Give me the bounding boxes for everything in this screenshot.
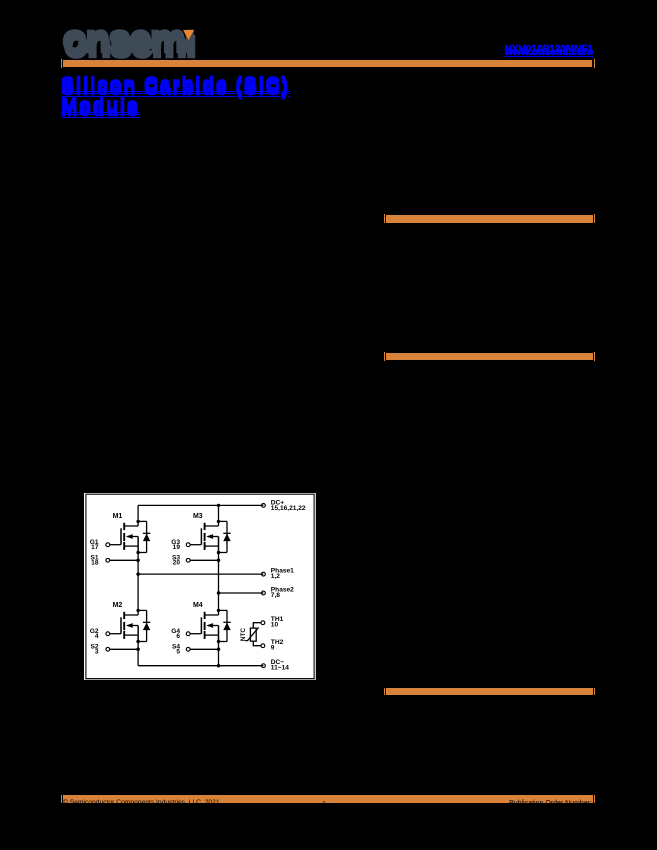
svg-text:7,8: 7,8 — [271, 592, 280, 599]
logo onsemi copy A — [63, 19, 194, 59]
section bar 3 left tick — [384, 688, 385, 696]
section bar 3 — [386, 688, 593, 695]
svg-text:5: 5 — [176, 649, 180, 656]
top orange rule left tick — [61, 59, 62, 67]
wire right column middle — [217, 537, 219, 615]
wire TH1 to thermistor — [253, 623, 261, 628]
thermistor RT body — [250, 628, 256, 641]
transistor M3 — [186, 520, 230, 562]
title line1 copy M — [61, 77, 290, 97]
terminal DC- circle — [261, 664, 265, 668]
svg-text:1,2: 1,2 — [271, 573, 280, 580]
top orange rule right tick — [594, 59, 595, 67]
terminal TH1 circle — [261, 621, 265, 625]
title line2 copy A — [61, 96, 139, 116]
junction dot bottom rail M4 column — [217, 664, 220, 667]
svg-text:M2: M2 — [113, 603, 123, 610]
terminal DC+ circle — [261, 504, 265, 508]
header link copy B (www.onsemi.com) — [505, 47, 593, 58]
section bar 2 left tick — [384, 352, 385, 361]
wire right column upper drain — [217, 506, 219, 527]
terminal Phase2 circle — [261, 591, 265, 595]
title line1 copy A — [61, 75, 290, 95]
header link copy A (part number) — [505, 45, 593, 55]
svg-text:3: 3 — [95, 649, 99, 656]
wire phase2 stub — [218, 592, 263, 594]
svg-text:6: 6 — [176, 633, 180, 640]
wire phase1 rail — [138, 573, 263, 575]
terminal TH2 circle — [261, 644, 265, 648]
svg-text:19: 19 — [173, 544, 181, 551]
footer right text (black on black, notches the rule) — [509, 800, 592, 807]
title line2 copy M — [61, 98, 139, 118]
section bar 2 right tick — [594, 352, 595, 361]
wire DC- bottom rail — [138, 665, 263, 667]
schematic border frame — [86, 495, 314, 679]
schematic white background — [84, 493, 316, 680]
wire left column upper drain — [137, 506, 139, 527]
logo onsemi copy B — [64, 24, 195, 64]
footer page number (black on black, tiny notch) — [322, 801, 326, 808]
junction dot phase1 at left column — [136, 573, 139, 576]
section bar 1 left tick — [384, 214, 385, 223]
junction dot top rail M3 column — [217, 504, 220, 507]
svg-text:10: 10 — [271, 622, 279, 629]
footer orange rule left tick — [61, 795, 62, 804]
title line2 copy B — [61, 101, 139, 121]
footer orange rule right tick — [594, 795, 595, 804]
terminal Phase1 circle — [261, 573, 265, 577]
wire DC+ top rail — [138, 505, 263, 507]
svg-text:17: 17 — [91, 544, 99, 551]
circuit schematic figure — [84, 493, 316, 680]
section bar 1 — [386, 215, 593, 223]
svg-text:15,16,21,22: 15,16,21,22 — [271, 505, 306, 512]
wire left column middle — [137, 537, 139, 615]
section bar 3 right tick — [594, 688, 595, 696]
svg-text:NTC: NTC — [240, 628, 247, 641]
wire TH2 to thermistor — [253, 642, 261, 646]
wire right column lower — [217, 626, 219, 666]
svg-text:18: 18 — [91, 560, 99, 567]
svg-text:M1: M1 — [113, 514, 123, 521]
svg-text:11−14: 11−14 — [271, 665, 289, 672]
transistor M2 — [106, 609, 150, 651]
svg-text:4: 4 — [95, 633, 99, 640]
svg-text:9: 9 — [271, 645, 275, 652]
svg-text:M3: M3 — [193, 514, 203, 521]
top orange rule — [63, 60, 592, 68]
footer orange rule — [63, 795, 593, 803]
section bar 1 right tick — [594, 214, 595, 223]
wire left column lower — [137, 626, 139, 666]
transistor M1 — [106, 520, 150, 562]
footer left text (black on black, notches the rule) — [63, 800, 220, 807]
footer right text line2 (black on black) — [518, 806, 592, 814]
junction dot phase2 at right column — [217, 592, 220, 595]
transistor M4 — [186, 609, 230, 651]
title line1 copy B — [61, 80, 290, 100]
svg-text:M4: M4 — [193, 603, 203, 610]
thermistor strike line — [245, 628, 258, 641]
section bar 2 — [386, 353, 593, 361]
svg-text:20: 20 — [173, 560, 181, 567]
logo orange accent — [181, 29, 197, 43]
